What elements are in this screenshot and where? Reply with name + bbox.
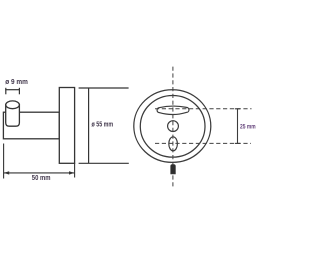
hook arm (side view) [3, 112, 59, 139]
dimension 50 mm: left extension line [3, 144, 5, 179]
svg-text:25 mm: 25 mm [240, 124, 256, 131]
oblong screw hole [169, 137, 178, 151]
dimension 50 mm: right extension line [74, 163, 76, 177]
arc mounting slot [157, 106, 189, 114]
inner circle of front view [140, 95, 205, 157]
dimension ø 55 mm: bottom extension line [79, 162, 129, 164]
dimension ø 9 mm line with end ticks [5, 88, 20, 95]
wall plate (side view) [59, 88, 74, 164]
dimension 25 mm: vertical line with end ticks [235, 109, 240, 144]
outer circle of front view [134, 90, 211, 163]
vertical dashed centerline [172, 67, 174, 187]
dimension 50 mm: horizontal line with arrowheads [4, 171, 75, 174]
svg-text:ø 55 mm: ø 55 mm [92, 120, 114, 129]
hook peg cylinder (side view) [6, 101, 20, 126]
horizontal dashed line through oblong hole (25 mm lower reference) [155, 142, 251, 144]
hook peg knob (front view, dark) [171, 165, 176, 174]
dimension ø 55 mm: vertical line [88, 88, 90, 163]
horizontal dashed line through slot (25 mm upper reference) [155, 108, 252, 110]
svg-text:50 mm: 50 mm [32, 173, 51, 182]
dimension ø 55 mm: top extension line [79, 87, 129, 89]
center screw hole circle [168, 121, 179, 132]
svg-text:ø 9 mm: ø 9 mm [5, 77, 28, 86]
